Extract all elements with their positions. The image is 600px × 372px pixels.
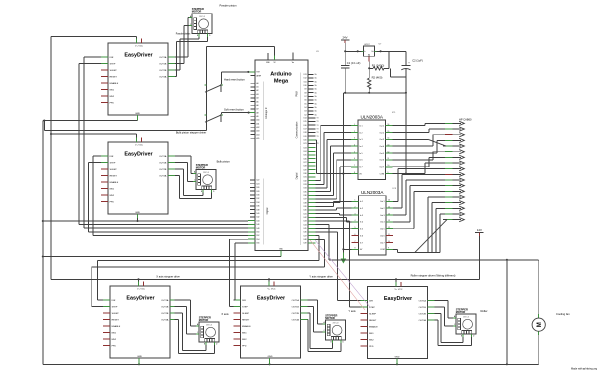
svg-text:Powder piston: Powder piston (219, 4, 237, 8)
wire Arduino D32 to ULN1 In1 (316, 126, 352, 181)
stepper motor M3 (X axis) (196, 315, 219, 345)
svg-text:Made with ■ fritzing.org: Made with ■ fritzing.org (571, 368, 598, 371)
svg-text:D14: D14 (304, 118, 307, 120)
ULN2003A IC1 (351, 112, 396, 180)
svg-text:D44: D44 (304, 224, 307, 226)
wire 24V to regulator IN (345, 43, 361, 52)
wire ED4 OUT1A to M4 pin A (308, 300, 323, 324)
connector arrow pin 8 (443, 161, 464, 165)
voltage regulator U7 LM317 (361, 43, 382, 61)
svg-text:D26: D26 (304, 158, 307, 160)
wire Arduino D34 to ULN1 In3 (316, 139, 352, 188)
svg-text:D21: D21 (304, 143, 307, 145)
connector arrow pin 15 (443, 201, 464, 205)
wire Arduino D35 to ULN1 In4 (316, 146, 352, 191)
svg-text:Digital: Digital (266, 207, 269, 214)
svg-text:D16: D16 (304, 125, 307, 127)
unconnected stub arrow 3 (445, 134, 453, 136)
svg-text:AREF: AREF (257, 74, 262, 77)
wire ED3 OUT1A to M3 pin A (175, 300, 197, 326)
svg-text:D11: D11 (304, 81, 307, 83)
wire ED3 OUT1B to M3 pin C (175, 307, 197, 334)
wire ED5 OUT2B to M5 pin B (435, 314, 464, 343)
svg-text:D36: D36 (257, 206, 260, 208)
wire ED2 OUT1A to stepper M2 pin A (175, 156, 193, 173)
stepper motor M2 (bulk piston) (193, 163, 216, 193)
wire Arduino D42 to ULN2 In4 (316, 217, 352, 222)
wire regulator ground bus (343, 92, 406, 94)
wire ULN1 Out7 to arrow 7 (393, 157, 444, 166)
svg-text:X axis: X axis (221, 312, 229, 316)
svg-text:D8: D8 (304, 92, 306, 94)
svg-text:PWM: PWM (296, 91, 299, 97)
connector arrow pin 10 (443, 172, 464, 176)
wire ED4 OUT2A to M4 pin D (308, 320, 342, 352)
svg-text:D25: D25 (304, 155, 307, 157)
wire ULN2 Out5 to arrow 13 (393, 191, 443, 228)
wire Arduino D36 to ULN1 In5 (316, 153, 352, 195)
connector arrow pin 9 (443, 167, 464, 171)
wire ULN2 COM run (393, 249, 440, 252)
wire ED4 VCC tap (269, 279, 274, 286)
svg-text:M: M (537, 322, 543, 327)
svg-text:D7: D7 (304, 96, 306, 98)
svg-text:HP CAB60: HP CAB60 (459, 118, 472, 122)
svg-text:D54: D54 (257, 239, 260, 241)
connector arrow pin 18 (443, 218, 464, 222)
connector arrow pin 3 (443, 133, 464, 137)
svg-text:D36: D36 (304, 195, 307, 197)
wire button S1 to Arduino RST (222, 71, 250, 84)
svg-text:D30: D30 (257, 195, 260, 197)
wire ED4 GND (269, 358, 271, 364)
Arduino Mega U1 (248, 51, 320, 257)
svg-text:D38: D38 (257, 209, 260, 211)
connector arrow pin 2 (443, 127, 464, 131)
svg-text:D41: D41 (304, 213, 307, 215)
cooling fan motor M6 (532, 260, 545, 365)
svg-text:D39: D39 (304, 206, 307, 208)
svg-text:D46: D46 (304, 232, 307, 234)
svg-text:Y axis stepper drive: Y axis stepper drive (309, 274, 333, 278)
svg-text:D4: D4 (304, 107, 306, 109)
svg-text:D6: D6 (304, 100, 306, 102)
wire ULN1 Out4 to arrow 3 (393, 135, 444, 146)
svg-text:D29: D29 (304, 169, 307, 171)
wire ULN1 Out5 to arrow 4 (393, 140, 444, 153)
svg-text:D27: D27 (304, 162, 307, 164)
connector arrow pin 7 (443, 155, 464, 159)
wire ED1 OUT2A to stepper M1 pin D (175, 37, 208, 77)
wire R1 to C2 bottom (390, 68, 406, 77)
svg-text:Bulk piston stepper driver: Bulk piston stepper driver (176, 131, 206, 135)
resistor R2 (4K0) (368, 68, 383, 94)
svg-text:D20: D20 (304, 140, 307, 142)
svg-text:Communication: Communication (296, 121, 299, 138)
EasyDriver U6 (roller driver, bottom right) (361, 282, 435, 359)
wire ED5 VCC tap (396, 279, 401, 286)
svg-text:D34: D34 (257, 202, 260, 204)
wire ULN2 Out4 to arrow 12 (393, 186, 443, 222)
power flag 24V (341, 36, 350, 43)
wire 12V VCC bus (51, 278, 479, 280)
svg-text:D15: D15 (304, 121, 307, 123)
wire ED5 DIR from Arduino (316, 232, 361, 300)
EasyDriver U2 (powder piston driver, top left) (101, 39, 175, 116)
connector arrow pin 16 (443, 206, 464, 210)
svg-text:D35: D35 (304, 191, 307, 193)
svg-text:C2 (1uF): C2 (1uF) (412, 59, 423, 63)
wire ED5 STEP from Arduino (316, 228, 361, 307)
capacitor C2 (1uF) electrolytic (401, 51, 423, 94)
svg-text:D44: D44 (257, 220, 260, 222)
svg-text:D18: D18 (304, 132, 307, 134)
resistor R1 (240) (368, 62, 389, 71)
Arduino communication pins D14-D21 (304, 118, 320, 146)
connector arrow pin 13 (443, 189, 464, 193)
wire ED5 OUT1A to M5 pin A (435, 301, 454, 318)
wire bottom ground bus (43, 363, 539, 365)
connector arrow pin 11 (443, 178, 464, 182)
wire bracket to arrow 17 (440, 214, 443, 252)
wire Arduino D33 to ULN1 In2 (316, 132, 352, 184)
wire ULN1 Out6 to arrow 6 (393, 152, 444, 160)
wire ULN1 Out3 diagonal to arrow 5 (393, 139, 447, 146)
wire Arduino D41 to ULN2 In3 (316, 214, 352, 215)
Arduino right digital pins D23-D53 (304, 147, 316, 244)
wire ULN2 Out3 to arrow 11 (393, 180, 443, 215)
svg-text:D22: D22 (257, 180, 260, 182)
wire Arduino D44 ground bundle line (42, 220, 248, 222)
wire 5V rail to buttons (207, 46, 275, 84)
wire ED1 OUT1B to stepper M1 pin C (175, 26, 189, 64)
svg-text:D42: D42 (304, 217, 307, 219)
svg-text:D12: D12 (304, 78, 307, 80)
wire ED1 OUT2B to stepper M1 pin B (175, 37, 199, 70)
pushbutton S1 (hard reset) (205, 84, 224, 92)
wire ED5 OUT1B to M5 pin C (435, 307, 454, 326)
EasyDriver U3 (bulk piston driver, mid left) (101, 138, 175, 215)
svg-text:Arduino: Arduino (270, 72, 292, 78)
connector arrow pin 17 (443, 212, 464, 216)
svg-text:Powder piston: Powder piston (176, 32, 191, 35)
svg-text:D28: D28 (304, 166, 307, 168)
svg-text:D28: D28 (257, 191, 260, 193)
wire Arduino D37 to ULN1 In6 (316, 160, 352, 199)
wire ED4 STEP feed (230, 239, 249, 306)
svg-text:D50: D50 (257, 232, 260, 234)
wire ED3 STEP from Arduino D48 (92, 239, 325, 306)
wire Arduino D43 to ULN2 In5 (316, 221, 352, 229)
wire fan control from Arduino (316, 225, 539, 261)
wire ULN2 0V to rail (342, 248, 351, 250)
svg-text:D17: D17 (304, 129, 307, 131)
svg-text:D23: D23 (304, 147, 307, 149)
wire ED1 VCC to 12V rail via top (51, 37, 137, 134)
pushbutton S2 (soft reset) (205, 114, 224, 122)
svg-text:Digital: Digital (296, 172, 299, 179)
wire ED4 OUT2B to M4 pin B (308, 313, 333, 349)
svg-text:R2 (4K0): R2 (4K0) (372, 76, 383, 80)
wire ED2 GND down to bus (136, 214, 138, 222)
wire ED2 VCC join (50, 133, 137, 279)
svg-text:D46: D46 (257, 224, 260, 226)
svg-text:Y axis: Y axis (348, 309, 356, 313)
EasyDriver U5 (Y axis driver, bottom middle) (234, 282, 308, 359)
svg-text:D24: D24 (304, 151, 307, 153)
wire ED3 GND (138, 358, 140, 364)
wire ED3 VCC tap (139, 279, 144, 286)
svg-text:Mega: Mega (274, 79, 289, 85)
wire ED3 DIR from Arduino D47 (98, 236, 319, 300)
wire button S2 ground return (43, 119, 206, 130)
svg-text:12V: 12V (477, 228, 482, 232)
wire diagonal to arrow 18 (415, 220, 447, 253)
wire button S2 to Arduino A8 (222, 112, 250, 114)
svg-text:D32: D32 (257, 198, 260, 200)
svg-text:D19: D19 (304, 136, 307, 138)
svg-text:C1 (0.1 uF): C1 (0.1 uF) (347, 61, 361, 65)
wire bracket to arrow 16 (436, 208, 443, 252)
wire Arduino GND to left rail (42, 255, 281, 257)
wire regulator OUT node (377, 50, 406, 68)
svg-text:Roller: Roller (480, 309, 487, 313)
svg-text:Bulk piston: Bulk piston (217, 159, 231, 163)
svg-text:24V: 24V (343, 36, 348, 40)
wire ULN2 Out1 to arrow 9 (393, 169, 443, 202)
wire ULN1 0V from Arduino D20 (316, 140, 352, 175)
svg-text:D48: D48 (304, 239, 307, 241)
wire ED5 OUT2A to M5 pin D (435, 320, 472, 346)
wire ULN1 Out2 to arrow 2 (393, 129, 444, 132)
wire fan supply branch (506, 260, 508, 366)
svg-text:Roller stepper driver (Wiring: Roller stepper driver (Wiring different) (411, 273, 456, 277)
stepper motor M5 (roller) (453, 307, 476, 337)
svg-text:LM317: LM317 (364, 44, 370, 46)
Arduino analog pins A0-A15 (250, 82, 260, 140)
svg-text:Soft reset button: Soft reset button (224, 108, 244, 112)
stepper motor M1 (powder piston) (189, 7, 212, 37)
ground arrow (341, 253, 347, 264)
wire ULN1 COM to arrow 8 (393, 163, 444, 174)
wire Arduino D39 to ULN2 In1 (316, 201, 352, 206)
svg-text:D13: D13 (304, 74, 307, 76)
connector arrow pin 5 (443, 144, 464, 148)
capacitor C1 (0.1uF) (341, 50, 361, 93)
svg-text:D49: D49 (304, 243, 307, 245)
wire ED1 DIR to Arduino D44 (84, 57, 248, 228)
wire ED1 GND down-left (43, 115, 138, 364)
power flag 12V (475, 228, 483, 279)
svg-text:Analoge In: Analoge In (265, 107, 268, 119)
svg-text:RST: RST (257, 72, 260, 74)
svg-text:D32: D32 (304, 180, 307, 182)
svg-text:D40: D40 (304, 210, 307, 212)
connector arrow pin 14 (443, 195, 464, 199)
svg-text:D9: D9 (304, 89, 306, 91)
wire ED2 OUT2B to stepper M2 pin B (175, 169, 203, 196)
svg-text:D37: D37 (304, 199, 307, 201)
wire button S1 to button S2 (206, 92, 208, 114)
wire ED4 DIR feed (234, 243, 249, 300)
wire ULN1 Out1 to arrow 1 (393, 123, 444, 125)
svg-text:In: In (364, 51, 365, 53)
wire ED2 STEP to Arduino D48 (89, 163, 249, 232)
svg-text:X axis stepper drive: X axis stepper drive (156, 274, 180, 278)
wire bracket to arrow 14 (428, 197, 443, 252)
svg-text:D10: D10 (304, 85, 307, 87)
svg-text:D33: D33 (304, 184, 307, 186)
stepper motor M4 (Y axis) (323, 313, 346, 343)
unconnected stub arrow 10 (445, 173, 453, 175)
wire bracket to arrow 15 (432, 203, 443, 253)
ULN2003A IC2 (352, 188, 397, 255)
svg-text:D34: D34 (304, 188, 307, 190)
svg-text:D38: D38 (304, 202, 307, 204)
connector arrow pin 1 (443, 121, 464, 125)
svg-text:D45: D45 (304, 228, 307, 230)
svg-text:D5: D5 (304, 103, 306, 105)
wire ED1 OUT1A to stepper M1 pin A (175, 18, 189, 58)
connector arrow pin 12 (443, 184, 464, 188)
wire ED2 OUT1B to stepper M2 pin C (175, 163, 193, 182)
svg-text:D47: D47 (304, 235, 307, 237)
svg-text:D56: D56 (257, 243, 260, 245)
EasyDriver U4 (X axis driver, bottom left) (103, 282, 177, 359)
svg-text:D42: D42 (257, 217, 260, 219)
wire ED5 GND (396, 359, 398, 365)
svg-text:Hard reset button: Hard reset button (224, 78, 245, 82)
Arduino PWM pins D13-D2 (304, 73, 318, 116)
svg-text:D52: D52 (257, 235, 260, 237)
svg-text:D26: D26 (257, 187, 260, 189)
wire 24V ground rail down (342, 93, 344, 253)
svg-text:D48: D48 (257, 228, 260, 230)
wire Arduino D40 to ULN2 In2 (316, 208, 352, 210)
connector arrow pin 6 (443, 150, 464, 154)
wire ED3 OUT2B to M3 pin B (175, 313, 207, 351)
wire ED1 STEP to Arduino D42 (79, 64, 248, 225)
ratsnest line violet (315, 240, 370, 307)
connector arrow pin 4 (443, 138, 464, 142)
wire 24V output rail to ULN1 COM (405, 93, 407, 175)
svg-text:Vin: Vin (292, 62, 294, 64)
svg-text:D3: D3 (304, 111, 306, 113)
wire ED4 OUT1B to M4 pin C (308, 307, 323, 332)
wire Arduino D38 to ULN1 In7 (316, 167, 352, 203)
wire ED2 OUT2A to stepper M2 pin D (175, 176, 212, 199)
svg-text:D24: D24 (257, 183, 260, 185)
watermark fritzing (571, 368, 598, 371)
ratsnest line red (310, 240, 365, 310)
svg-text:Cooling fan: Cooling fan (556, 312, 570, 316)
wire ULN2 Out2 to arrow 10 (393, 174, 443, 208)
svg-text:D30: D30 (304, 173, 307, 175)
wire ED3 OUT2A to M3 pin D (175, 320, 215, 354)
svg-text:D2: D2 (304, 114, 306, 116)
svg-text:D43: D43 (304, 221, 307, 223)
Arduino left digital pins D22-D52 (248, 180, 260, 245)
svg-text:D40: D40 (257, 213, 260, 215)
wire ED2 DIR to Arduino D50 (93, 156, 248, 236)
svg-text:D31: D31 (304, 177, 307, 179)
